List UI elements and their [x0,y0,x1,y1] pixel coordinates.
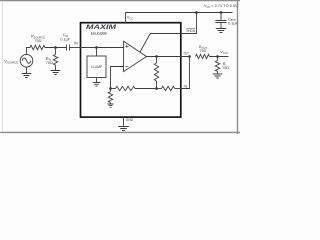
wire VCC rail [126,12,233,14]
wire CLAMP to ground [96,78,98,83]
wire SHDN to VCC rail [181,13,197,34]
ground below VSOURCE [22,74,32,78]
wire RSOURCE to input node [45,47,67,49]
capacitor CIN 0.1uF [67,45,70,51]
svg-text:75Ω: 75Ω [222,66,229,70]
label ROUT 75 ohm [199,44,208,53]
wire node to RIN [55,48,57,55]
node junction VOUT [216,55,219,58]
internal gain resistor node A to node B [111,86,157,90]
wire SHDN internal to op-amp [140,34,181,53]
wire ROUT to VOUT node [210,56,229,58]
ground below RL [213,74,223,78]
resistor RIN 75 ohm [53,55,57,65]
CLAMP block [87,56,106,78]
label RSOURCE 75 ohm [31,34,45,43]
node junction output [155,55,158,58]
resistor ROUT 75 ohm [196,54,210,58]
node A junction [109,87,112,90]
pin label VCC [127,15,133,21]
ground below CLAMP [93,83,101,87]
node junction clamp tap [95,46,98,49]
node junction input node [54,46,57,49]
capacitor CBYP 0.1uF [216,21,227,29]
wire external feedback FB to OUT [181,57,190,89]
wire source bottom to ground [26,67,28,74]
pin label GND [126,118,133,122]
ground below CBYP [216,29,226,33]
internal resistor node A to ground [108,89,112,105]
label RIN 75 ohm [46,56,53,65]
ground internal below node A [107,104,113,107]
node junction OUT/FB [188,55,191,58]
part number MAX4090 [91,31,108,36]
wire VCC pin drop [125,13,127,24]
svg-text:IN: IN [74,41,78,45]
pin label OUT [184,52,190,56]
net label VCC = 2.7V TO 5.5V [204,3,238,9]
ground below RIN [51,71,61,75]
resistor RL 75 ohm [215,61,219,72]
svg-text:GND: GND [126,118,133,122]
wire node to CLAMP [96,48,98,57]
wire source top to RSOURCE [27,48,31,55]
voltage source VSOURCE [20,54,33,67]
label VSOURCE [4,59,18,65]
svg-text:0.1µF: 0.1µF [228,21,238,25]
value label CBYP 0.1uF [228,17,238,25]
net label VOUT [220,49,229,55]
wire RIN to ground [55,65,57,71]
pin label FB [184,84,188,88]
internal feedback resistor output to node B [154,57,158,89]
label CIN 0.1uF [61,32,71,41]
svg-text:MAX4090: MAX4090 [91,31,108,36]
node B junction [155,87,158,90]
border frame (decorative) [0,0,240,134]
svg-text:FB: FB [184,84,188,88]
wire VOUT node to RL [217,57,219,61]
wire inverting input to node A [111,67,124,89]
svg-text:MAXIM: MAXIM [86,24,117,31]
resistor RSOURCE 75 ohm [30,45,45,49]
svg-text:VCC = 2.7V TO 5.5V: VCC = 2.7V TO 5.5V [204,3,238,9]
svg-text:SHDN: SHDN [186,29,195,33]
svg-text:OUT: OUT [184,52,190,56]
wire GND pin [123,117,125,127]
wire IN to op-amp noninverting input [81,47,124,49]
internal resistor node B to FB pin [157,86,182,90]
pin label SHDN (active low) [186,28,195,33]
pin label IN [74,41,78,45]
wire CIN to IN pin [70,47,81,49]
svg-text:VSOURCE: VSOURCE [4,59,18,65]
svg-text:75Ω: 75Ω [200,49,207,53]
wire op-amp output to OUT pin [147,56,190,58]
ground below GND pin [118,127,129,131]
node junction CBYP/VCC [220,11,223,14]
MAXIM logo [86,24,117,31]
svg-text:75Ω: 75Ω [35,39,42,43]
op-amp IC U1 MAX4090 body [81,23,181,117]
wire RL to ground [217,72,219,75]
svg-text:VOUT: VOUT [220,49,229,55]
label RL 75 ohm [222,61,229,70]
svg-text:CLAMP: CLAMP [91,65,103,69]
svg-text:0.1µF: 0.1µF [61,38,71,42]
svg-text:VCC: VCC [127,15,133,21]
wire VCC to CBYP [220,13,222,21]
op-amp A1 triangle [124,41,147,71]
svg-text:75Ω: 75Ω [46,61,53,65]
node junction SHDN/VCC [195,11,198,14]
